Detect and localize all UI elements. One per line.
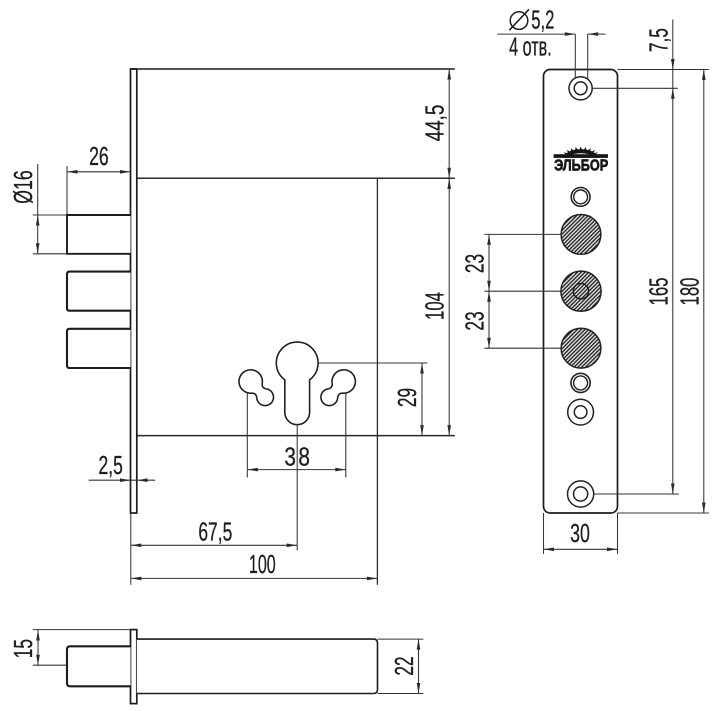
right fixing screw cutout <box>321 370 355 406</box>
svg-text:4 отв.: 4 отв. <box>509 33 552 62</box>
hole diameter callout Ø5,2 4 отв. <box>497 5 605 79</box>
lock body bottom edge <box>137 435 455 437</box>
ELBOR logo <box>554 147 609 175</box>
svg-text:3: 3 <box>284 442 296 471</box>
dimension 100 with arrows <box>131 550 378 580</box>
svg-text:ЭЛЬБОР: ЭЛЬБОР <box>554 158 608 175</box>
faceplate strip bottom view <box>131 630 137 704</box>
deadbolt 2 front view <box>67 272 131 311</box>
hatched bolt hole 3 <box>561 328 601 368</box>
bottom screw hole <box>568 481 594 507</box>
dimension 104 with arrows <box>420 178 451 435</box>
euro cylinder keyhole cutout <box>276 342 318 425</box>
svg-text:180: 180 <box>675 278 704 306</box>
svg-text:7,5: 7,5 <box>644 28 673 52</box>
dimension 180 with arrows <box>618 70 709 514</box>
svg-text:15: 15 <box>9 639 38 658</box>
dimension 23 lower with arrows <box>460 291 561 348</box>
top screw hole <box>569 77 592 100</box>
dimension 2,5 with arrows <box>89 451 156 482</box>
dimension 67,5 with arrows <box>131 513 297 585</box>
dimension 23 upper with arrows <box>460 234 561 291</box>
svg-text:44,5: 44,5 <box>420 105 449 142</box>
svg-text:23: 23 <box>460 254 489 273</box>
svg-text:29: 29 <box>393 388 422 407</box>
dimension 38 with arrows and cylinder centreline <box>247 393 345 551</box>
svg-text:Ø16: Ø16 <box>9 170 38 203</box>
dimension 44,5 with arrows <box>420 69 451 178</box>
dimension 26 with arrows <box>67 142 131 214</box>
hatched bolt hole 1 <box>561 215 601 255</box>
faceplate plate outline <box>544 70 618 514</box>
dimension 7,5 with arrow <box>618 20 709 89</box>
dimension 15 with arrows <box>9 630 130 666</box>
svg-text:8: 8 <box>298 442 310 471</box>
lock body right edge <box>376 178 378 585</box>
svg-text:67,5: 67,5 <box>198 517 232 546</box>
dimension 165 with arrows <box>592 88 679 494</box>
svg-text:104: 104 <box>420 292 449 320</box>
left fixing screw cutout <box>239 370 273 406</box>
svg-text:30: 30 <box>570 519 590 548</box>
lock body top edge <box>131 68 455 70</box>
svg-text:5,2: 5,2 <box>531 5 554 34</box>
double circle hole <box>568 399 594 425</box>
deadbolt bottom view <box>67 646 131 686</box>
svg-text:165: 165 <box>644 278 673 306</box>
small ring hole lower <box>571 373 590 392</box>
deadbolt 3 front view <box>67 329 131 368</box>
svg-text:26: 26 <box>89 142 109 171</box>
svg-text:2,5: 2,5 <box>99 451 123 480</box>
deadbolt 1 front view <box>67 215 131 254</box>
lock case bottom view <box>137 639 378 693</box>
svg-text:23: 23 <box>460 311 489 330</box>
svg-text:100: 100 <box>249 550 276 579</box>
small ring hole upper <box>571 188 590 207</box>
svg-text:22: 22 <box>390 656 419 675</box>
dimension 22 with arrows <box>378 639 424 693</box>
faceplate strip front view <box>131 69 137 513</box>
dimension Ø16 with arrows <box>9 164 67 254</box>
lock body section line <box>137 177 455 179</box>
hatched bolt hole 2 with inner hole <box>561 271 601 311</box>
dimension 30 with arrows <box>544 513 618 554</box>
dimension 29 with arrows <box>318 363 427 436</box>
